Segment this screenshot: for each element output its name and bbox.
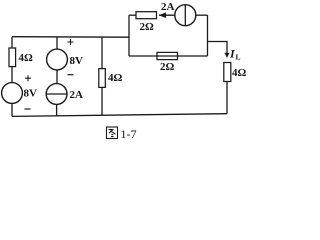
wire: left branch middle lead [11,67,13,83]
resistor 4Ω (load branch) [224,63,231,82]
svg-text:8V: 8V [70,55,84,67]
wire: left branch upper lead [11,37,13,48]
wire: loop top edge right stub [196,14,208,16]
svg-text:8V: 8V [24,88,38,100]
wire: loop bottom edge [129,55,208,57]
value label 4Ω (left branch) [19,52,34,64]
value label 2A (middle branch) [70,89,84,101]
caption glyph 图 [107,127,118,139]
svg-text:2A: 2A [161,1,175,13]
svg-text:L: L [236,53,241,62]
svg-text:4Ω: 4Ω [19,52,34,64]
polarity - of middle 8V source [68,74,74,76]
wire: bottom rail [12,114,227,117]
wire: left branch lower lead [11,103,13,116]
wire: top rail from node A to loop left edge [12,36,129,39]
wire: center branch lower lead [101,87,103,115]
wire: arrow lead from top resistor to source [159,14,175,16]
voltage source 8V (middle branch) [47,49,68,70]
polarity - of left 8V source [25,108,31,110]
svg-text:1-7: 1-7 [121,127,137,141]
current label IL [229,47,241,62]
value label 8V (middle branch) [70,55,84,67]
resistor 2Ω (loop top) [136,12,157,19]
value label 2Ω (loop bottom) [160,61,175,73]
svg-text:4Ω: 4Ω [108,72,123,84]
svg-text:2A: 2A [70,89,84,101]
load current arrowhead IL (pointing down) [225,53,230,58]
value label 8V (left branch) [24,88,38,100]
value label 4Ω (center branch) [108,72,123,84]
wire: center branch upper lead [101,37,103,69]
value label 4Ω (load branch) [232,67,247,79]
value label 2Ω (loop top) [140,21,155,33]
resistor 2Ω (loop bottom) [157,52,178,59]
wire: loop left edge [128,15,130,56]
caption text 1-7 [121,127,137,141]
svg-text:2Ω: 2Ω [140,21,155,33]
resistor 4Ω (center branch) [99,69,106,88]
wire: tap from loop right edge to load branch [208,42,228,54]
svg-text:2Ω: 2Ω [160,61,175,73]
current source 2A (loop top) [175,5,196,26]
voltage source 8V (left branch) [2,83,23,104]
wire: middle branch lower lead [56,104,58,115]
polarity + of left 8V source [25,75,31,81]
wire: middle branch lead between sources [56,70,58,84]
resistor 4Ω (left branch) [9,48,16,67]
wire: loop right edge [207,15,209,56]
svg-text:4Ω: 4Ω [232,67,247,79]
current source 2A (middle branch) [46,84,67,105]
current direction arrowhead (2A, pointing left) [159,12,166,18]
wire: middle branch upper lead [56,37,58,49]
polarity + of middle 8V source [68,39,74,45]
wire: load branch lower lead [226,82,228,114]
current label 2A (loop top) [161,1,175,13]
wire: loop top edge left stub [129,14,136,16]
